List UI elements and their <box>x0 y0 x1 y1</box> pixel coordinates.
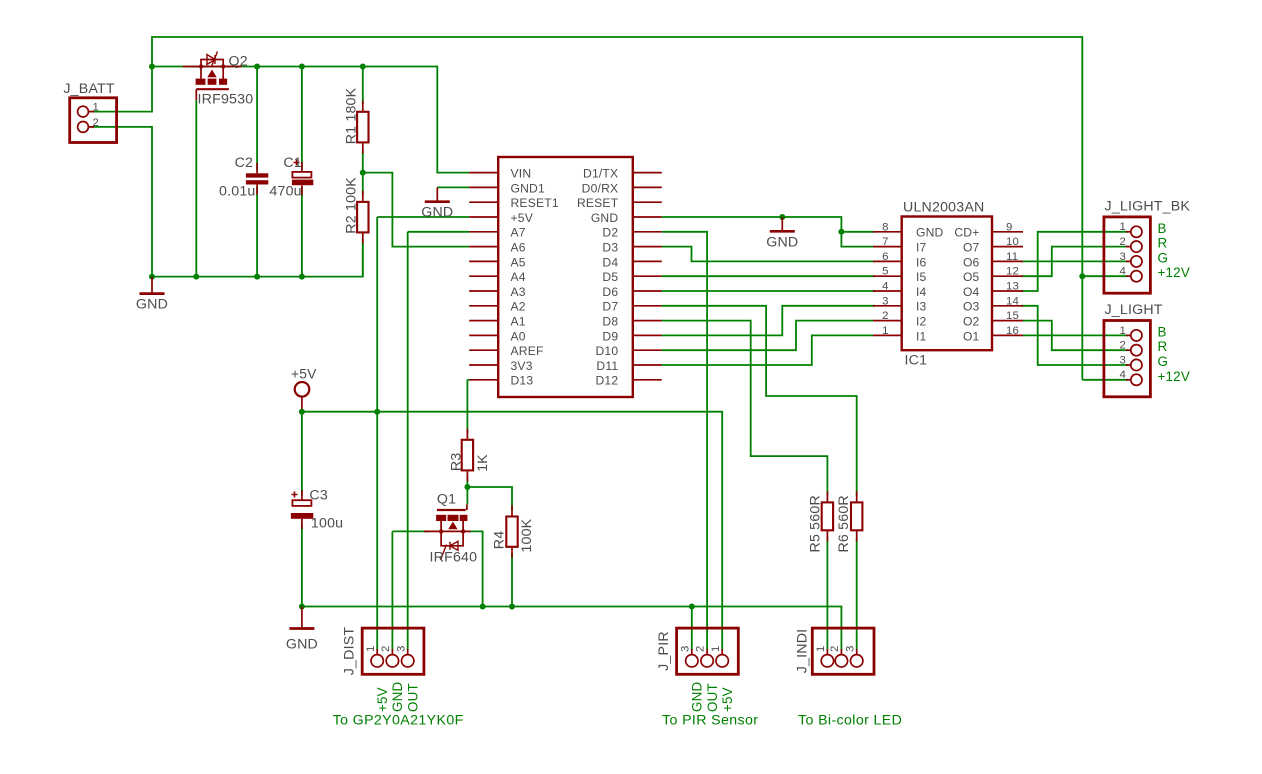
J_INDI pin 2 circle <box>835 655 847 667</box>
junction rail-R1 <box>360 64 366 70</box>
svg-text:1: 1 <box>365 645 377 652</box>
svg-text:D9: D9 <box>602 329 618 343</box>
wire D10 to ULN I2 <box>662 321 875 351</box>
junction GND rail-J_PIR pin3 <box>689 604 695 610</box>
wire J_BATT pin2 down to GND rail <box>90 127 152 277</box>
svg-text:B: B <box>1158 324 1167 339</box>
svg-text:O3: O3 <box>963 300 980 314</box>
svg-text:D5: D5 <box>602 270 618 284</box>
connector J_LIGHT box <box>1104 321 1151 397</box>
wire D3 to ULN I6 <box>662 247 875 262</box>
svg-text:+12V: +12V <box>1158 369 1190 384</box>
svg-text:ULN2003AN: ULN2003AN <box>903 200 984 216</box>
svg-text:+5V: +5V <box>375 687 390 712</box>
svg-text:D3: D3 <box>602 241 618 255</box>
junction R3-R4-gate node <box>464 484 470 490</box>
wire GND1 to ground symbol <box>437 186 469 188</box>
svg-text:0.01u: 0.01u <box>219 183 256 199</box>
svg-text:11: 11 <box>1006 251 1018 263</box>
svg-text:2: 2 <box>882 310 889 322</box>
svg-text:1: 1 <box>710 645 722 652</box>
svg-text:OUT: OUT <box>405 683 420 712</box>
J_INDI pin 3 circle <box>851 655 863 667</box>
wire C2 leads <box>256 67 258 277</box>
junction +5V symbol-C3 <box>299 409 305 415</box>
transistor Q2 IRF9530 <box>183 52 242 101</box>
MCU pin stubs left <box>469 173 498 380</box>
svg-text:D2: D2 <box>602 226 618 240</box>
wire C1 leads <box>301 67 303 277</box>
junction GND rail at C1 <box>299 274 305 280</box>
svg-text:OUT: OUT <box>705 683 720 712</box>
svg-text:D11: D11 <box>596 359 618 373</box>
svg-text:4: 4 <box>1119 369 1126 381</box>
junction GND rail at C2 <box>254 274 260 280</box>
svg-text:IRF9530: IRF9530 <box>198 92 254 108</box>
wire R3 bottom to Q1 gate <box>466 477 468 504</box>
svg-text:A5: A5 <box>511 255 526 269</box>
svg-text:GND: GND <box>591 211 619 225</box>
svg-text:RESET1: RESET1 <box>511 196 559 210</box>
wire D8 to R5 top <box>662 321 828 496</box>
J_DIST pin leads <box>377 649 408 655</box>
svg-text:A0: A0 <box>511 329 526 343</box>
svg-text:D12: D12 <box>596 374 619 388</box>
connector J_INDI box <box>812 628 874 674</box>
svg-text:J_BATT: J_BATT <box>63 81 115 97</box>
svg-text:2: 2 <box>695 645 707 652</box>
svg-text:I1: I1 <box>916 329 927 343</box>
svg-text:C1: C1 <box>283 155 302 171</box>
svg-text:RESET: RESET <box>577 196 619 210</box>
J_PIR pin leads <box>692 649 722 655</box>
svg-text:100K: 100K <box>519 518 535 552</box>
svg-text:O7: O7 <box>963 241 980 255</box>
wire R4 bottom to GND rail <box>511 553 513 607</box>
ULN pin stubs left <box>873 232 902 336</box>
wire +5V rail to J_PIR pin1 <box>302 412 722 650</box>
MCU pin stubs right <box>633 173 662 380</box>
svg-text:O4: O4 <box>963 285 980 299</box>
svg-text:4: 4 <box>882 281 889 293</box>
junction BATT+ at x152 <box>149 64 155 70</box>
svg-text:9: 9 <box>1006 221 1013 233</box>
wire Q1 source to GND rail <box>468 531 483 606</box>
svg-text:13: 13 <box>1006 281 1019 293</box>
svg-text:GND: GND <box>286 637 318 653</box>
svg-text:O1: O1 <box>963 329 980 343</box>
resistor R5 560R <box>822 491 833 541</box>
svg-text:3: 3 <box>1119 354 1126 366</box>
svg-text:2: 2 <box>1119 236 1126 248</box>
wire MCU GND to ULN pin8 <box>662 217 842 232</box>
svg-text:GND: GND <box>421 205 453 221</box>
J_LIGHT pin 2 circle <box>1131 345 1142 356</box>
junction rail-C1 <box>299 64 305 70</box>
wire D2 to J_PIR pin2 OUT <box>662 232 707 650</box>
svg-text:A6: A6 <box>511 241 526 255</box>
svg-text:C2: C2 <box>235 155 254 171</box>
ground symbol at GND1 <box>421 187 453 220</box>
wire D11 to ULN I1 <box>662 335 875 365</box>
wire +12V branch to J_LIGHT_BK pin4 <box>1082 275 1128 277</box>
wire J_BATT pin1 to Q2 source rail <box>90 67 152 112</box>
svg-text:3: 3 <box>1119 251 1126 263</box>
ground symbol at MCU GND <box>766 217 798 250</box>
svg-text:R5 560R: R5 560R <box>808 495 824 552</box>
svg-text:D10: D10 <box>596 344 619 358</box>
junction +12V at J_LIGHT_BK pin4 row <box>1079 273 1085 279</box>
svg-text:Q2: Q2 <box>229 54 248 70</box>
wire VBATT switched rail through Q2 to VIN <box>152 67 469 173</box>
svg-text:G: G <box>1158 250 1169 265</box>
svg-text:7: 7 <box>882 236 889 248</box>
svg-text:IC1: IC1 <box>905 353 928 369</box>
svg-text:I3: I3 <box>916 300 927 314</box>
svg-text:1: 1 <box>882 325 889 337</box>
svg-text:6: 6 <box>882 251 889 263</box>
svg-text:O5: O5 <box>963 270 980 284</box>
wire A7 pin <box>408 231 470 233</box>
wire D5 to ULN I5 <box>662 275 875 277</box>
junction GND rail at Q2 gate <box>193 274 199 280</box>
wire J_DIST pin2 line to Q1 drain <box>392 530 430 532</box>
svg-text:GND: GND <box>916 226 944 240</box>
svg-text:A1: A1 <box>511 315 526 329</box>
svg-text:AREF: AREF <box>511 344 544 358</box>
J_INDI pin leads <box>827 649 856 655</box>
svg-text:3: 3 <box>844 645 856 652</box>
wire O4 to J_LIGHT_BK B <box>1021 232 1128 291</box>
svg-text:D4: D4 <box>602 255 618 269</box>
resistor R3 1K <box>462 429 473 482</box>
wire GND rail left (to R2 bottom) <box>152 244 363 277</box>
svg-text:GND1: GND1 <box>511 181 545 195</box>
wire GND bottom rail to J_INDI pin2 <box>302 607 842 650</box>
wire C3 leads <box>301 412 303 607</box>
svg-text:GND: GND <box>136 297 168 313</box>
ground symbol at battery <box>136 277 168 313</box>
svg-text:R: R <box>1158 339 1168 354</box>
junction rail-C2 <box>254 64 260 70</box>
svg-text:1K: 1K <box>475 454 491 472</box>
resistor R6 560R <box>851 491 862 541</box>
svg-text:R: R <box>1158 236 1168 251</box>
svg-text:I6: I6 <box>916 255 927 269</box>
wire to ULN pin8 <box>841 231 874 233</box>
svg-text:3: 3 <box>882 295 889 307</box>
J_LIGHT pin 1 circle <box>1131 330 1142 341</box>
svg-text:I4: I4 <box>916 285 927 299</box>
svg-text:B: B <box>1158 221 1167 236</box>
svg-text:15: 15 <box>1006 310 1019 322</box>
J_BATT pin 1 circle <box>78 106 89 117</box>
wire R5 bottom to J_INDI pin1 <box>826 537 828 650</box>
svg-text:16: 16 <box>1006 325 1019 337</box>
svg-text:2: 2 <box>93 117 100 129</box>
svg-text:R6 560R: R6 560R <box>836 495 852 552</box>
wire GND rail to J_PIR pin3 <box>691 607 693 650</box>
svg-text:1: 1 <box>1119 221 1126 233</box>
wire +5V pin <box>377 216 469 218</box>
svg-text:R2 100K: R2 100K <box>344 177 360 234</box>
wire R1-R2 divider column <box>362 67 364 277</box>
J_DIST pin 3 circle <box>402 655 414 667</box>
svg-text:12: 12 <box>1006 266 1019 278</box>
IC MCU box (Arduino) <box>498 157 633 397</box>
capacitor C3 100u (polarized) <box>291 490 313 529</box>
J_LIGHT_BK pin 3 circle <box>1131 256 1142 267</box>
wire D7 to R6 top <box>662 306 857 496</box>
svg-text:GND: GND <box>766 234 798 250</box>
svg-text:GND: GND <box>390 682 405 712</box>
svg-text:D13: D13 <box>511 374 534 388</box>
svg-text:3V3: 3V3 <box>511 359 533 373</box>
svg-text:D1/TX: D1/TX <box>583 167 618 181</box>
wire Q2 gate to GND rail <box>195 100 197 277</box>
J_LIGHT_BK pin 4 circle <box>1131 271 1142 282</box>
svg-text:To PIR Sensor: To PIR Sensor <box>662 713 758 729</box>
J_PIR pin 3 circle <box>686 655 698 667</box>
svg-text:+5V: +5V <box>720 687 735 712</box>
svg-text:A2: A2 <box>511 300 526 314</box>
J_LIGHT pin leads <box>1126 335 1131 379</box>
svg-text:J_DIST: J_DIST <box>342 627 358 676</box>
J_BATT pin 2 circle <box>78 122 89 133</box>
svg-text:I5: I5 <box>916 270 927 284</box>
ground symbol at bottom rail <box>286 607 318 653</box>
svg-text:O6: O6 <box>963 255 980 269</box>
J_BATT pin leads <box>88 112 94 127</box>
svg-text:C3: C3 <box>309 488 328 504</box>
wire D6 to ULN I4 <box>662 290 875 292</box>
resistor R2 100K <box>357 191 368 244</box>
junction GND rail-C3 <box>299 604 305 610</box>
svg-text:A4: A4 <box>511 270 526 284</box>
J_DIST pin 2 circle <box>386 655 398 667</box>
+5V supply symbol <box>295 382 310 409</box>
wire O3 to J_LIGHT G <box>1021 306 1128 365</box>
wire O1 to J_LIGHT B <box>1021 334 1128 336</box>
wire R6 bottom to J_INDI pin3 <box>856 537 858 650</box>
svg-text:J_PIR: J_PIR <box>656 631 672 671</box>
J_INDI pin 1 circle <box>821 655 833 667</box>
junction ULN pin8 node <box>838 229 844 235</box>
connector J_DIST box <box>362 628 424 674</box>
svg-text:IRF640: IRF640 <box>430 550 478 566</box>
wire +12V to J_LIGHT pin4 <box>1082 379 1128 381</box>
transistor Q1 IRF640 <box>424 504 471 560</box>
svg-text:I7: I7 <box>916 241 927 255</box>
svg-text:470u: 470u <box>269 183 301 199</box>
J_PIR pin 2 circle <box>701 655 713 667</box>
svg-text:J_LIGHT: J_LIGHT <box>1105 302 1163 318</box>
wire O5 to J_LIGHT_BK R <box>1021 247 1128 277</box>
J_LIGHT_BK pin leads <box>1126 232 1131 276</box>
connector J_LIGHT_BK box <box>1104 217 1151 293</box>
svg-text:3: 3 <box>395 645 407 652</box>
junction GND rail at x152 <box>149 274 155 280</box>
svg-text:D8: D8 <box>602 315 618 329</box>
svg-text:+5V: +5V <box>511 211 534 225</box>
wire O2 to J_LIGHT R <box>1021 321 1128 351</box>
svg-text:2: 2 <box>1119 340 1126 352</box>
J_PIR pin 1 circle <box>716 655 728 667</box>
junction R4-GND rail <box>509 604 515 610</box>
svg-text:To Bi-color LED: To Bi-color LED <box>798 713 902 729</box>
svg-text:3: 3 <box>679 645 691 652</box>
wire node to R4 top <box>467 487 512 510</box>
ULN pin stubs right <box>992 232 1023 336</box>
svg-text:D6: D6 <box>602 285 618 299</box>
wire divider midpoint to MCU A6 <box>363 173 469 247</box>
svg-text:CD+: CD+ <box>954 226 979 240</box>
svg-text:J_INDI: J_INDI <box>795 629 811 674</box>
J_LIGHT pin 3 circle <box>1131 359 1142 370</box>
svg-text:5: 5 <box>882 266 889 278</box>
junction Q1 source-GND rail <box>480 604 486 610</box>
connector J_BATT box <box>70 98 117 143</box>
svg-text:+5V: +5V <box>291 367 317 382</box>
svg-text:R1 180K: R1 180K <box>344 87 360 144</box>
junction divider midpoint <box>360 170 366 176</box>
svg-text:R4: R4 <box>491 531 507 550</box>
op-amp? no - IC U1 ULN2003AN box <box>902 217 992 351</box>
J_LIGHT_BK pin 2 circle <box>1131 241 1142 252</box>
svg-text:2: 2 <box>380 645 392 652</box>
resistor R4 100K <box>506 506 517 558</box>
wire D13 down to R3 <box>466 380 468 433</box>
capacitor C2 0.01u <box>246 163 268 195</box>
wire Q1 drain down to J_DIST pin2 <box>391 531 393 649</box>
svg-text:G: G <box>1158 354 1169 369</box>
svg-text:2: 2 <box>829 645 841 652</box>
junction GND net-ground symbol <box>779 214 785 220</box>
wire A7 down to J_DIST pin3 OUT <box>407 232 409 650</box>
wire O6 to J_LIGHT_BK G <box>1021 260 1128 262</box>
junction +5V rail-MCU +5V line <box>374 409 380 415</box>
wire D9 to ULN I3 <box>662 306 875 336</box>
wire to ULN pin7 <box>841 232 874 247</box>
wire +5V pin down to J_DIST pin1 <box>376 217 378 650</box>
svg-text:1: 1 <box>815 645 827 652</box>
svg-text:1: 1 <box>1119 325 1126 337</box>
svg-text:A3: A3 <box>511 285 526 299</box>
svg-text:D0/RX: D0/RX <box>582 181 619 195</box>
svg-text:14: 14 <box>1006 295 1019 307</box>
svg-text:Q1: Q1 <box>437 491 456 507</box>
svg-text:10: 10 <box>1006 236 1019 248</box>
svg-text:I2: I2 <box>916 315 927 329</box>
svg-text:J_LIGHT_BK: J_LIGHT_BK <box>1105 198 1191 214</box>
svg-text:4: 4 <box>1119 266 1126 278</box>
svg-text:GND: GND <box>690 682 705 712</box>
J_DIST pin 1 circle <box>371 655 383 667</box>
svg-text:VIN: VIN <box>511 167 532 181</box>
resistor R1 180K <box>357 101 368 154</box>
wire D13 stub link <box>467 379 469 381</box>
connector J_PIR box <box>677 628 739 674</box>
J_LIGHT_BK pin 1 circle <box>1131 226 1142 237</box>
svg-text:R3: R3 <box>448 453 464 472</box>
capacitor C1 470u (polarized) <box>292 160 313 196</box>
svg-text:O2: O2 <box>963 315 980 329</box>
svg-text:1: 1 <box>93 102 100 114</box>
svg-text:+12V: +12V <box>1158 265 1190 280</box>
svg-text:A7: A7 <box>511 226 526 240</box>
svg-text:To GP2Y0A21YK0F: To GP2Y0A21YK0F <box>333 713 464 729</box>
svg-text:8: 8 <box>882 221 889 233</box>
J_LIGHT pin 4 circle <box>1131 374 1142 385</box>
svg-text:D7: D7 <box>602 300 618 314</box>
svg-text:100u: 100u <box>311 516 343 532</box>
wire BATT+ top rail from Q2 source to J_LIGHT +12V <box>152 37 1082 380</box>
